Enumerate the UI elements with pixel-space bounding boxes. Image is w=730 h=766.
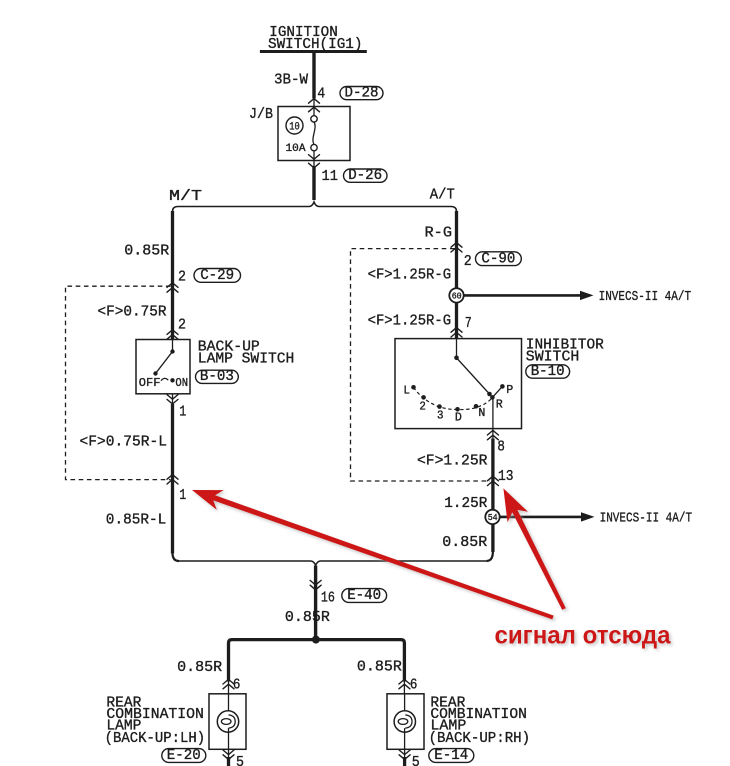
svg-text:4: 4 <box>317 86 325 103</box>
svg-text:OFF: OFF <box>139 376 161 390</box>
svg-text:<F>1.25R-G: <F>1.25R-G <box>368 266 452 283</box>
svg-text:13: 13 <box>498 468 514 485</box>
svg-text:<F>0.75R: <F>0.75R <box>98 303 167 320</box>
svg-text:6: 6 <box>410 676 418 693</box>
svg-text:2: 2 <box>178 269 186 286</box>
svg-text:8: 8 <box>497 438 505 455</box>
svg-text:0.85R: 0.85R <box>442 534 487 551</box>
svg-text:3: 3 <box>437 408 444 422</box>
svg-text:16: 16 <box>321 589 335 606</box>
svg-text:1: 1 <box>179 487 186 504</box>
svg-text:54: 54 <box>488 512 498 523</box>
svg-text:сигнал отсюда: сигнал отсюда <box>495 621 672 649</box>
svg-text:INVECS-II 4A/T: INVECS-II 4A/T <box>599 289 692 305</box>
svg-text:60: 60 <box>452 291 462 302</box>
svg-text:M/T: M/T <box>169 188 202 205</box>
svg-text:L: L <box>403 383 410 397</box>
svg-text:B-10: B-10 <box>531 363 565 380</box>
svg-text:C-90: C-90 <box>481 250 515 267</box>
svg-text:2: 2 <box>464 253 472 270</box>
svg-text:ON: ON <box>175 376 188 390</box>
svg-text:6: 6 <box>233 676 241 693</box>
svg-text:SWITCH: SWITCH <box>526 349 580 366</box>
svg-text:0.85R-L: 0.85R-L <box>106 511 167 528</box>
svg-text:10A: 10A <box>286 143 306 155</box>
svg-text:1.25R: 1.25R <box>444 495 487 512</box>
svg-text:0.85R: 0.85R <box>285 609 330 626</box>
svg-text:C-29: C-29 <box>200 267 234 284</box>
svg-text:LAMP SWITCH: LAMP SWITCH <box>198 350 294 367</box>
svg-text:0.85R: 0.85R <box>124 243 169 260</box>
svg-text:B-03: B-03 <box>200 368 234 385</box>
svg-text:2: 2 <box>419 400 426 414</box>
svg-text:D-28: D-28 <box>345 85 379 102</box>
svg-text:3B-W: 3B-W <box>274 72 308 89</box>
svg-text:P: P <box>506 383 513 397</box>
svg-text:R-G: R-G <box>425 224 453 241</box>
svg-text:7: 7 <box>465 315 472 332</box>
svg-text:J/B: J/B <box>249 106 273 123</box>
svg-text:E-20: E-20 <box>167 747 201 764</box>
svg-text:<F>0.75R-L: <F>0.75R-L <box>80 434 168 451</box>
svg-text:R: R <box>496 398 503 412</box>
svg-text:A/T: A/T <box>430 186 455 203</box>
svg-text:N: N <box>478 406 485 420</box>
svg-text:D: D <box>455 411 462 425</box>
svg-text:E-40: E-40 <box>347 587 381 604</box>
svg-text:0.85R: 0.85R <box>177 659 222 676</box>
svg-text:<F>1.25R-G: <F>1.25R-G <box>368 312 452 329</box>
svg-text:(BACK-UP:LH): (BACK-UP:LH) <box>105 730 206 747</box>
svg-text:11: 11 <box>322 168 339 185</box>
svg-text:2: 2 <box>178 316 186 333</box>
svg-text:5: 5 <box>236 754 244 766</box>
svg-text:(BACK-UP:RH): (BACK-UP:RH) <box>429 730 530 747</box>
svg-text:D-26: D-26 <box>348 167 382 184</box>
svg-text:5: 5 <box>412 754 420 766</box>
svg-text:0.85R: 0.85R <box>357 658 402 675</box>
svg-text:E-14: E-14 <box>434 747 468 764</box>
svg-text:INVECS-II 4A/T: INVECS-II 4A/T <box>600 511 693 527</box>
svg-text:SWITCH(IG1): SWITCH(IG1) <box>268 36 363 53</box>
svg-text:<F>1.25R: <F>1.25R <box>417 452 488 469</box>
svg-text:1: 1 <box>179 404 186 421</box>
svg-text:10: 10 <box>289 122 300 134</box>
